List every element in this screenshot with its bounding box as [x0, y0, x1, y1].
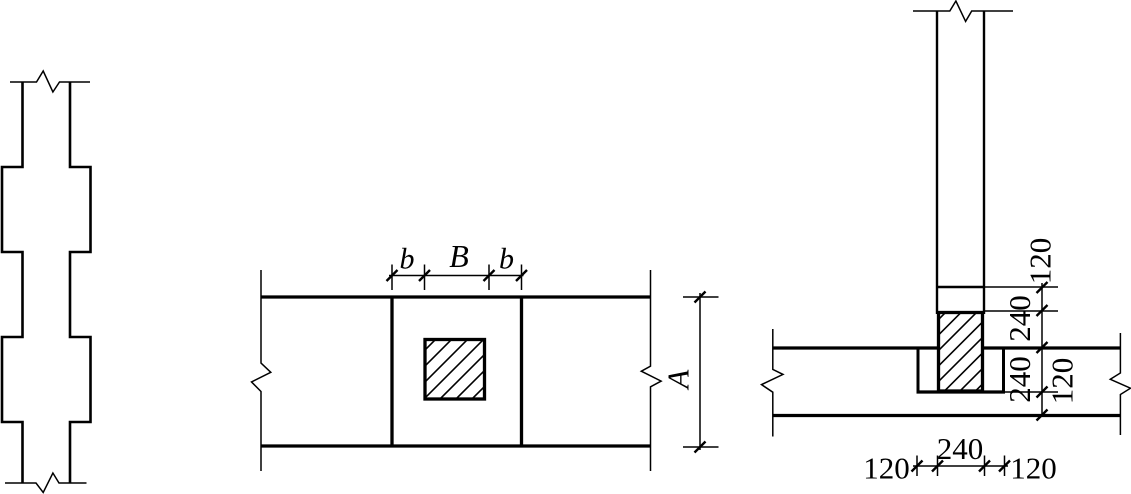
- notch right side: [1002, 348, 1005, 392]
- bottom dimension chain: [913, 456, 1008, 477]
- svg-text:240: 240: [937, 431, 984, 466]
- right vertical dimension chain: [984, 283, 1058, 417]
- tick 392: [1037, 387, 1048, 398]
- svg-text:120: 120: [863, 451, 910, 486]
- dimension line: [389, 275, 524, 277]
- svg-text:b: b: [400, 243, 415, 276]
- break line top: [913, 1, 1013, 21]
- middle plan view: wall with constructional column: [252, 270, 662, 471]
- break line right: [1110, 333, 1130, 435]
- tick top: [695, 292, 706, 303]
- wall top line left: [774, 346, 939, 349]
- dimension line: [699, 293, 701, 450]
- svg-text:b: b: [499, 243, 514, 276]
- tick bottom: [695, 442, 706, 453]
- right cross wall line: [520, 297, 523, 446]
- wall top line: [261, 295, 651, 298]
- svg-text:A: A: [661, 369, 696, 391]
- notch left side: [917, 348, 920, 392]
- break line bottom: [5, 473, 87, 493]
- left elevation: toothed wall column (ma-ya-cha): [2, 71, 91, 493]
- column course line: [937, 286, 984, 288]
- left cross wall line: [390, 297, 393, 446]
- extension lines: [391, 265, 393, 291]
- tick 310.5: [1037, 305, 1048, 316]
- hatched square border: [425, 340, 485, 400]
- break line left: [252, 270, 271, 471]
- wall top line right: [984, 346, 1121, 349]
- break line left: [762, 329, 784, 437]
- wall bottom line: [774, 414, 1122, 417]
- dimension line: [1041, 283, 1043, 417]
- extension line at notch bottom: [1005, 391, 1058, 393]
- svg-text:120: 120: [1023, 238, 1058, 285]
- notch bottom: [917, 390, 1006, 393]
- svg-text:240: 240: [1002, 356, 1037, 403]
- column left edge: [936, 11, 938, 314]
- break line right: [641, 270, 661, 471]
- tick 347.5: [1037, 342, 1048, 353]
- top dimension b B b: [389, 265, 524, 291]
- extension line at course: [984, 286, 1058, 288]
- column right edge: [983, 11, 985, 314]
- right dimension A: [683, 293, 719, 450]
- svg-text:120: 120: [1045, 358, 1080, 405]
- break line top: [10, 71, 90, 92]
- ticks: [912, 461, 923, 472]
- tick 287: [1037, 282, 1048, 293]
- svg-text:B: B: [449, 238, 469, 274]
- toothed wall right outline: [70, 82, 91, 483]
- tick marks: [387, 270, 398, 281]
- svg-text:240: 240: [1002, 295, 1037, 342]
- extension lines: [916, 456, 918, 477]
- toothed wall left outline: [2, 82, 23, 483]
- extension line top: [683, 296, 719, 298]
- extension line bottom: [683, 446, 719, 448]
- tick 415: [1037, 410, 1048, 421]
- extension line at hatch top: [984, 310, 1058, 312]
- wall bottom line: [261, 444, 651, 447]
- svg-text:120: 120: [1010, 451, 1057, 486]
- hatched area border: [939, 313, 983, 392]
- right section view: [762, 1, 1131, 437]
- dimension line: [913, 465, 1008, 467]
